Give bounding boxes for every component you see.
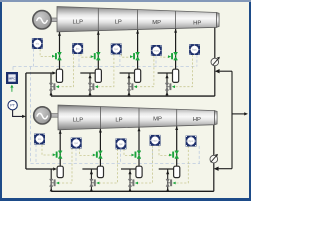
control arrow into green valve row1 [130,55,133,58]
flow arrow into turbine row1 unit1 [58,32,61,36]
controller LC8 [186,136,197,147]
bypass valve (gray) row1 unit1 [49,83,53,90]
controller LC1 [72,43,83,54]
actuator cylinder row1 unit1 [56,69,62,82]
flow arrow riser row1 unit3 [128,92,131,96]
control arrow into gray valve row2 [96,182,99,185]
flow arrow into cylinder row1 unit1 [52,71,56,74]
controller LC7 [150,135,161,146]
feed riser pipe row2 unit4 [167,169,169,191]
signal stub MPC [12,67,14,74]
bypass valve (gray) row1 unit2 [88,83,92,90]
svg-text:ipc: ipc [74,141,78,145]
controller LC2 [111,44,122,55]
control arrow into gray valve row1 [134,85,137,88]
generator G2 shaft [50,114,58,118]
HP outlet pipe row2 [213,125,215,192]
exhaust header row2 [51,190,214,192]
control valve (green) row2 unit4 [175,151,179,158]
control arrow into green valve row2 [169,154,172,157]
actuator cylinder row1 unit3 [135,69,141,82]
canvas background [0,0,251,201]
actuator cylinder row1 unit4 [173,69,179,82]
svg-text:HP: HP [193,117,201,123]
signal stub icon row1 [196,55,198,67]
flow arrow riser row1 unit4 [166,92,169,96]
feed stub row2 unit3 [121,168,136,170]
check valve row1 [215,69,220,73]
control line to green valve (dashed olive) row1 [122,54,132,57]
svg-text:MP: MP [153,117,162,123]
control line iconA to valve1 (dashed olive) [40,49,53,56]
svg-text:ipc: ipc [76,47,80,51]
turbine T2 section divider [138,108,140,127]
flow arrow up feed row1 unit3 [127,74,130,78]
flow arrow into turbine row1 unit3 [136,30,139,34]
control arrow into green valve row2 [131,154,134,157]
flow arrow into turbine row2 unit2 [99,129,102,133]
feed riser pipe row1 unit3 [128,73,130,96]
turbine T1 end cap [217,13,220,28]
feed riser pipe row2 unit3 [129,169,131,191]
control arrow into green valve row2 [93,154,96,157]
feed riser pipe row2 unit2 [90,169,92,191]
window border frame [0,0,2,201]
signal stub icon row2 [198,146,200,164]
flow arrow up feed row2 unit2 [90,170,93,174]
control arrow into green valve row1 [168,55,171,58]
control line to gray valve (dashed olive) row2 [57,148,72,183]
feed stub row2 unit2 [82,168,97,170]
turbine T1 section divider [97,8,99,31]
svg-text:MPC: MPC [9,76,17,80]
vent line (right vertical) [231,71,233,169]
svg-text:sic: sic [36,42,40,46]
control line to gray valve (dashed olive) row1 [96,54,114,87]
bypass valve (gray) row2 unit1 [49,179,53,186]
crossover pipe row1 to vent line [220,70,232,72]
feed riser pipe row1 unit1 [50,73,52,96]
control valve (green) row2 unit1 [58,151,62,158]
steam pipe row2 unit4 [176,126,178,166]
control arrow into gray valve row2 [135,182,138,185]
control arrow into gray valve row2 [173,182,176,185]
flow arrow riser row2 unit3 [129,188,132,192]
pressure sensor PT [8,101,17,110]
flow arrow riser row1 unit1 [50,92,53,96]
signal stub icon row2 [75,148,77,164]
svg-text:lpc: lpc [114,47,118,51]
svg-text:LP: LP [115,118,122,124]
steam pipe row2 unit3 [138,127,140,166]
controller MPC [7,73,18,84]
controller LC4 [189,44,200,55]
flow arrow up feed row2 unit3 [128,170,131,174]
steam pipe row1 unit2 [97,31,99,70]
HP outlet pipe row1 [214,27,216,96]
control arrow into gray valve row1 [172,85,175,88]
bypass valve (gray) row1 unit4 [165,83,169,90]
flow arrow riser row2 unit1 [50,188,53,192]
actuator cylinder row2 unit4 [174,166,180,177]
svg-text:LLP: LLP [73,117,84,123]
feed riser pipe row2 unit1 [50,169,52,191]
bypass valve (gray) row2 unit2 [90,179,94,186]
controller SC1 [32,38,43,49]
svg-text:LLP: LLP [73,19,84,25]
feed stub row1 unit2 [80,72,95,74]
steam pipe row1 unit4 [175,29,177,70]
control line to gray valve (dashed olive) row2 [97,149,117,183]
supply branch row1 [26,72,53,74]
svg-text:hpc: hpc [192,48,197,52]
actuator cylinder row2 unit2 [97,166,103,177]
flow arrow into turbine row1 unit2 [97,31,100,35]
svg-text:sic: sic [38,137,42,141]
PT tap arrow [22,115,26,118]
control line to green valve (dashed olive) row1 [161,56,170,58]
signal stub icon row1 [155,56,157,67]
controller LC3 [151,45,162,56]
turbine T2 section divider [99,107,101,129]
controller SC2 [34,134,45,145]
leak symbol row2 (circle with arrow) [210,155,218,163]
control valve (green) row1 unit4 [174,53,178,60]
flow arrow up feed row1 unit4 [165,74,168,78]
flow arrow into turbine row1 unit4 [174,29,177,33]
signal bus row1 (dashed blue) [13,66,197,68]
exhaust header row1 [51,95,215,97]
control valve (green) row2 unit3 [137,151,141,158]
feed riser pipe row1 unit4 [166,73,168,96]
control line to green valve (dashed olive) row2 [159,145,171,155]
control arrow into green valve1 row2 [53,153,56,156]
control line iconF to valve1 row2 (dashed olive) [42,145,54,155]
turbine T2 end cap [215,111,218,125]
feed stub row2 unit4 [159,168,174,170]
check valve row2 [214,167,219,171]
svg-text:MP: MP [152,20,161,26]
signal stub icon row1 [78,54,80,67]
flow arrow riser row1 unit2 [89,92,92,96]
control valve (green) row1 unit2 [96,53,100,60]
generator G2 [34,107,51,124]
generator G1 [33,11,51,29]
actuator cylinder row1 unit2 [95,69,101,82]
svg-text:mpc: mpc [152,138,158,142]
control valve (green) row2 unit2 [98,151,102,158]
steam pipe row1 unit3 [137,30,139,70]
flow arrow into cylinder row2 unit1 [53,167,57,170]
actuator cylinder row2 unit1 [57,166,63,177]
control valve (green) row1 unit3 [136,53,140,60]
leak symbol row1 (circle with arrow) [211,58,219,66]
control arrow into green valve 1 [52,55,55,58]
controller LC6 [116,138,127,149]
signal stub icon row2 [152,145,154,163]
supply branch row2 [26,168,53,170]
signal stub icon row1 [33,49,35,67]
flow arrow into turbine row2 unit3 [138,128,141,132]
flow arrow up feed row1 unit2 [88,74,91,78]
control arrow into green valve row1 [91,55,94,58]
steam pipe row1 unit1 [59,32,61,69]
flow arrow up feed row2 unit4 [166,170,169,174]
PT tap line [13,110,23,116]
flow arrow into turbine row2 unit1 [59,130,62,134]
crossover pipe row2 to vent line [219,168,232,170]
bypass valve (gray) row2 unit3 [128,179,132,186]
signal stub icon row2 [35,144,37,164]
control arrow into gray valve row1 [56,85,59,88]
bypass valve (gray) row1 unit3 [127,83,131,90]
svg-text:mpc: mpc [154,49,160,53]
signal stub icon row1 [119,54,121,67]
signal arrow PT to MPC [11,86,13,91]
flow arrow riser row2 unit2 [90,188,93,192]
signal drop to row2 (dashed blue) [30,67,32,164]
control line to gray valve (dashed olive) row2 [174,146,189,183]
steam pipe row2 unit1 [59,130,61,167]
feed stub row1 unit4 [158,72,173,74]
controller LC5 [71,138,82,149]
control arrow into gray valve row2 [56,182,59,185]
bypass valve (gray) row2 unit4 [166,179,170,186]
main steam supply line [25,73,27,169]
svg-text:hpc: hpc [189,139,194,143]
control arrow into gray valve row1 [95,85,98,88]
control line to gray valve (dashed olive) row1 [135,56,154,87]
feed stub row1 unit3 [120,72,135,74]
generator G1 shaft [51,18,57,22]
turbine T2 section divider [176,109,178,126]
turbine T1 section divider [137,10,139,30]
vent branch arrow to border [232,113,245,115]
signal bus row2 (dashed blue) [31,163,201,165]
turbine T2 body [58,105,215,130]
feed riser pipe row1 unit2 [89,73,91,96]
control line to gray valve (dashed olive) row1 [173,55,193,87]
svg-text:HP: HP [193,20,201,26]
turbine T1 section divider [175,11,177,29]
control line to green valve (dashed olive) row1 [81,54,92,58]
actuator cylinder row2 unit3 [136,166,142,177]
control valve (green) row1 unit1 [58,53,62,60]
flow arrow riser row2 unit4 [166,188,169,192]
control line to green valve (dashed olive) row2 [79,148,94,156]
svg-text:lpc: lpc [119,142,123,146]
svg-text:LP: LP [115,20,122,26]
flow arrow into turbine row2 unit4 [175,126,178,130]
control line to gray valve (dashed olive) row1 [57,54,74,87]
control line to gray valve (dashed olive) row2 [136,145,152,183]
signal stub icon row2 [120,149,122,164]
control line to green valve (dashed olive) row2 [124,149,133,156]
turbine T1 body [57,7,217,32]
steam pipe row2 unit2 [99,128,101,166]
svg-text:PT: PT [10,104,15,108]
